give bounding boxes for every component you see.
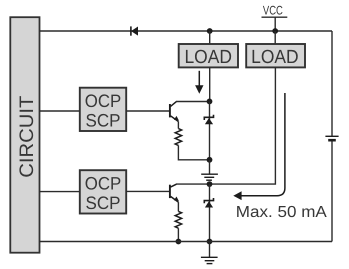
svg-text:VCC: VCC xyxy=(263,3,283,17)
diode D1 on top rail xyxy=(131,26,138,35)
ground 1 xyxy=(201,160,218,180)
node: R2 bottom junction xyxy=(176,239,182,245)
wire: R1 to emitter node xyxy=(178,145,209,159)
resistor R1 xyxy=(175,129,181,146)
wire: top rail from circuit block to right corner xyxy=(40,30,333,32)
ground 2 xyxy=(201,242,218,264)
load 2 box xyxy=(246,44,305,68)
wire: Q2 emitter lead to R2 xyxy=(177,202,179,211)
zener diode D2 xyxy=(204,115,213,125)
wire: ocp/scp 2 to Q2 base xyxy=(126,190,169,192)
battery B1 xyxy=(325,136,338,140)
svg-text:CIRCUIT: CIRCUIT xyxy=(16,96,38,178)
VCC supply symbol xyxy=(262,3,288,31)
wire: circuit block to ocp/scp 2 xyxy=(40,191,80,193)
node: top rail / VCC junction xyxy=(272,28,278,34)
wire: load 2 bottom to collector 2 node xyxy=(210,67,276,184)
ocp/scp block 1 xyxy=(80,88,126,131)
wire: bottom rail xyxy=(40,241,333,243)
node: emitter 1 junction xyxy=(207,157,213,163)
max current annotation arrow xyxy=(233,93,285,200)
node: top rail / load 1 junction xyxy=(207,28,213,34)
wire: Q2 collector to node xyxy=(176,183,210,185)
node: collector 1 junction xyxy=(207,99,213,105)
circuit block U1 xyxy=(10,17,39,253)
wire: right rail upper (corner to battery) xyxy=(331,31,333,136)
node: bottom rail junction xyxy=(207,239,213,245)
transistor Q2 (NPN) xyxy=(170,184,179,202)
wire: R2 to bottom rail xyxy=(177,228,179,241)
wire: load 2 top lead xyxy=(274,31,276,44)
wire: Q1 collector to node xyxy=(176,101,210,103)
svg-text:OCP: OCP xyxy=(85,174,122,194)
svg-text:LOAD: LOAD xyxy=(251,47,299,68)
current direction arrow (down) below load 1 xyxy=(195,71,203,94)
svg-text:OCP: OCP xyxy=(85,91,122,111)
wire: Q1 emitter lead to R1 xyxy=(177,122,179,129)
zener diode D3 xyxy=(204,198,213,208)
svg-text:LOAD: LOAD xyxy=(184,47,232,68)
wire: rail through zener 1 xyxy=(209,101,211,159)
transistor Q1 (NPN) xyxy=(170,102,179,122)
load 1 box xyxy=(179,44,238,68)
wire: load 1 bottom to collector node xyxy=(209,67,211,101)
resistor R2 xyxy=(175,211,181,228)
wire: load 1 top lead xyxy=(209,31,211,44)
svg-text:SCP: SCP xyxy=(86,111,121,131)
wire: circuit block to ocp/scp 1 xyxy=(40,110,80,112)
wire: right rail lower (battery to bottom corner) xyxy=(331,140,333,241)
svg-text:SCP: SCP xyxy=(86,193,121,213)
node: collector 2 junction xyxy=(207,181,213,187)
wire: rail through zener 2 xyxy=(209,184,211,241)
ocp/scp block 2 xyxy=(80,170,126,213)
wire: ocp/scp 1 to Q1 base xyxy=(126,110,169,112)
svg-text:Max. 50 mA: Max. 50 mA xyxy=(236,204,327,221)
